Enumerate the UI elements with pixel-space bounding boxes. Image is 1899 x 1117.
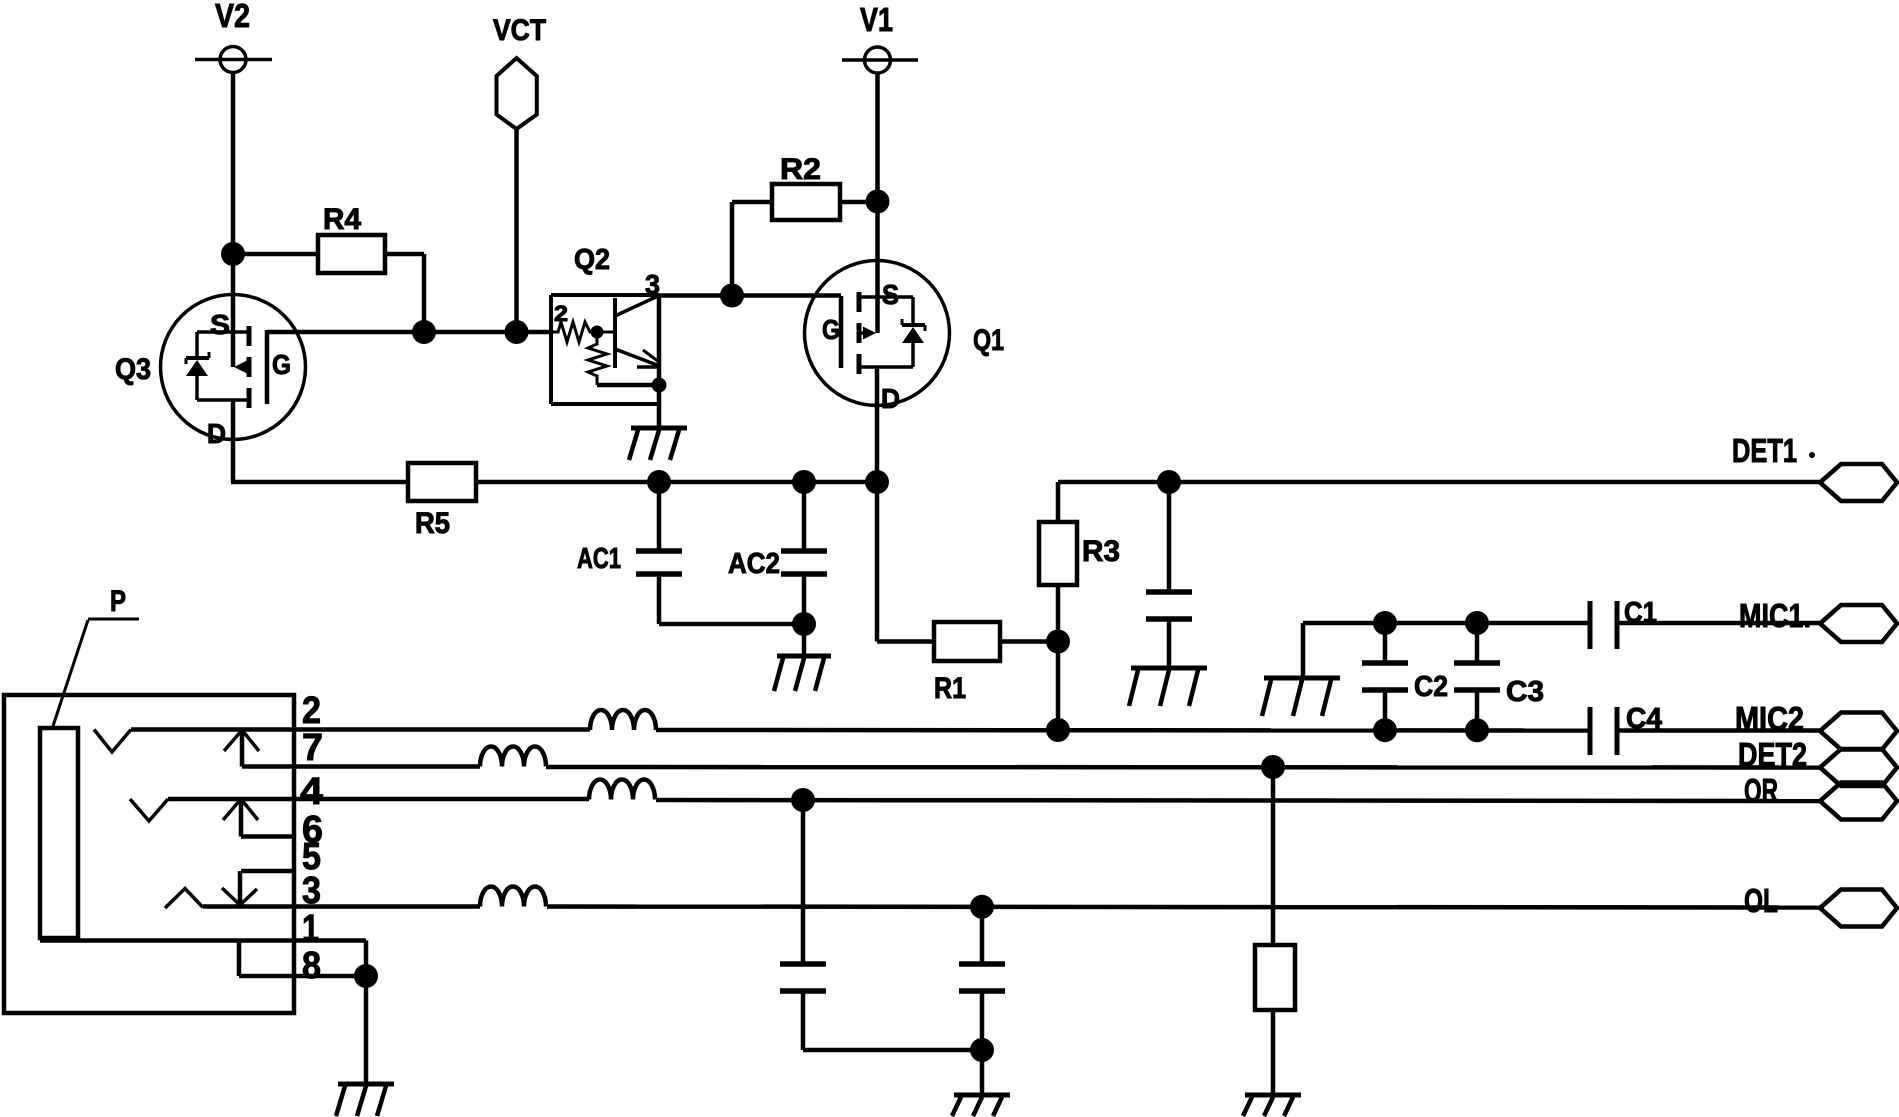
svg-text:Q2: Q2 bbox=[574, 244, 610, 276]
pin number 8 bbox=[302, 945, 321, 987]
wire DET2 node down to resistor bbox=[1271, 767, 1276, 945]
svg-text:8: 8 bbox=[302, 945, 321, 987]
node C2 bottom junction bbox=[1373, 718, 1397, 742]
wire AC1 bottom to AC2 bottom bbox=[659, 622, 804, 627]
label Q3 bbox=[115, 353, 151, 386]
net flag MIC2 bbox=[1735, 700, 1897, 750]
pin number 4 bbox=[300, 771, 323, 813]
net flag MIC1 bbox=[1739, 597, 1897, 642]
svg-text:AC2: AC2 bbox=[728, 548, 780, 580]
wire pin2 / MIC2 line bbox=[131, 730, 1822, 731]
svg-text:OL: OL bbox=[1744, 882, 1778, 919]
capacitor C1 bbox=[1590, 597, 1657, 649]
pin number 1 bbox=[302, 908, 319, 950]
pin 6 switch arrow bbox=[223, 799, 258, 837]
svg-text:DET2: DET2 bbox=[1738, 736, 1807, 773]
node DET2/resistor junction bbox=[1261, 755, 1285, 779]
wire pin1 bbox=[40, 941, 366, 977]
node R1/R3 junction bbox=[1046, 630, 1070, 654]
net flag OL bbox=[1744, 882, 1897, 927]
svg-text:R4: R4 bbox=[323, 203, 361, 236]
capacitor AC1 bbox=[577, 482, 682, 624]
svg-text:DET1: DET1 bbox=[1732, 432, 1797, 469]
svg-text:AC1: AC1 bbox=[577, 543, 621, 575]
transistor Q1 (P-MOSFET) bbox=[805, 261, 950, 415]
node AC2 bottom junction bbox=[792, 612, 816, 636]
svg-text:S: S bbox=[882, 279, 899, 310]
wire R5 to AC1/AC2/Q1 drain bbox=[476, 480, 877, 485]
wire OR cap bottom to OL cap bottom bbox=[803, 1048, 982, 1053]
node C3 top junction bbox=[1465, 611, 1489, 635]
node OL/cap junction bbox=[970, 895, 994, 919]
resistor (DET2 pull-down) bbox=[1255, 945, 1295, 1010]
pin 4 contact mark bbox=[130, 799, 168, 821]
node V1/R2 junction bbox=[866, 190, 890, 214]
pin number 3 bbox=[302, 870, 321, 912]
wire pin4 / OR line bbox=[168, 799, 1821, 801]
pin 5 switch arrow bbox=[222, 871, 257, 905]
wire R2 left leg bbox=[732, 202, 772, 296]
svg-text:V1: V1 bbox=[860, 1, 893, 38]
inductor (DET2 line) bbox=[480, 747, 546, 767]
ground (output filter) bbox=[952, 1095, 1010, 1116]
ground (Q2 emitter) bbox=[629, 428, 687, 460]
svg-text:G: G bbox=[272, 349, 291, 380]
node R4/gate net junction bbox=[412, 320, 436, 344]
svg-text:G: G bbox=[822, 314, 840, 345]
wire AC2 bottom to ground bbox=[802, 624, 807, 656]
node V2/R4 junction bbox=[221, 242, 245, 266]
svg-text:D: D bbox=[207, 418, 226, 449]
wire R1 to R3 node bbox=[1000, 639, 1058, 644]
pin number 6 bbox=[302, 809, 323, 851]
wire pin8 bbox=[239, 941, 366, 977]
net flag DET2 bbox=[1738, 736, 1897, 786]
transistor Q3 (P-MOSFET) bbox=[161, 295, 306, 450]
wire C1 to MIC1 flag bbox=[1617, 621, 1820, 626]
wire Q1 drain down bbox=[875, 367, 880, 642]
svg-text:1: 1 bbox=[302, 908, 319, 950]
label Q1 bbox=[973, 324, 1004, 357]
pin number 2 bbox=[302, 690, 321, 732]
connector P (jack) outline bbox=[4, 695, 294, 1013]
wire R4 to gate net bbox=[385, 254, 424, 332]
capacitor (OR filter) bbox=[780, 800, 826, 1050]
resistor R1 bbox=[934, 622, 1000, 705]
node OR/cap junction bbox=[791, 788, 815, 812]
resistor R4 bbox=[318, 203, 385, 273]
svg-text:Q3: Q3 bbox=[115, 353, 151, 386]
svg-text:R3: R3 bbox=[1082, 535, 1120, 568]
svg-text:MIC1.: MIC1. bbox=[1739, 597, 1811, 634]
capacitor C4 bbox=[1590, 703, 1662, 755]
wire pin6 stub bbox=[241, 834, 294, 839]
wire Q1 drain to R1 bbox=[877, 639, 934, 644]
svg-text:S: S bbox=[210, 309, 230, 340]
opto-isolator Q2 bbox=[551, 269, 667, 428]
label P with pointer bbox=[53, 585, 139, 726]
pin number 7 bbox=[302, 727, 323, 769]
svg-text:Q1: Q1 bbox=[973, 324, 1004, 357]
wire V2 to Q3 source bbox=[231, 73, 236, 368]
net flag DET1 bbox=[1732, 432, 1897, 501]
wire Q3 gate to Q2 bbox=[267, 330, 551, 335]
label Q2 bbox=[574, 244, 610, 276]
wire V2 node to R4 bbox=[233, 252, 318, 257]
ground (DET2 resistor) bbox=[1243, 1095, 1301, 1116]
power port V2 bbox=[195, 0, 272, 73]
wire R2 right leg bbox=[840, 200, 878, 205]
net flag OR bbox=[1744, 772, 1897, 820]
capacitor C2 bbox=[1362, 623, 1448, 730]
svg-text:R5: R5 bbox=[415, 507, 450, 540]
resistor R3 bbox=[1039, 522, 1120, 585]
svg-text:7: 7 bbox=[302, 727, 323, 769]
node caps/ground junction bbox=[970, 1038, 994, 1062]
node R3/MIC2 junction bbox=[1046, 718, 1070, 742]
node Q1 drain / mid rail junction bbox=[865, 470, 889, 494]
inductor (MIC2 line) bbox=[590, 710, 656, 730]
svg-text:R1: R1 bbox=[934, 672, 966, 705]
wire MIC1 net bbox=[1303, 623, 1590, 678]
pin 3 contact mark bbox=[165, 889, 203, 909]
svg-text:3: 3 bbox=[645, 269, 660, 300]
wire pin7 / DET2 line bbox=[242, 767, 1821, 768]
ground (connector P) bbox=[336, 1084, 394, 1116]
node DET1/cap junction bbox=[1157, 470, 1181, 494]
power port V1 bbox=[842, 1, 918, 73]
svg-text:VCT: VCT bbox=[493, 14, 546, 47]
capacitor C3 bbox=[1454, 623, 1544, 730]
node R2/gate junction bbox=[720, 284, 744, 308]
ground (MIC1 net) bbox=[1262, 678, 1340, 716]
node AC1 top junction bbox=[647, 470, 671, 494]
svg-text:MIC2: MIC2 bbox=[1735, 700, 1804, 737]
svg-text:C4: C4 bbox=[1626, 703, 1662, 735]
svg-text:D: D bbox=[881, 383, 900, 414]
wire Q3 drain down to R5 bbox=[231, 400, 408, 482]
wire pin5 stub bbox=[241, 869, 294, 874]
node AC2 top junction bbox=[792, 470, 816, 494]
svg-text:V2: V2 bbox=[215, 0, 250, 34]
inductor (OL line) bbox=[480, 887, 546, 907]
connector P sleeve bbox=[40, 728, 78, 938]
wire V1 to Q1 source bbox=[875, 73, 880, 333]
svg-text:4: 4 bbox=[300, 771, 323, 813]
wire VCT to gate net bbox=[514, 129, 519, 332]
capacitor AC2 bbox=[728, 482, 827, 624]
node C3 bottom junction bbox=[1465, 718, 1489, 742]
wire caps node to ground bbox=[980, 1050, 985, 1095]
wire Q2 pin3 to Q1 gate bbox=[659, 293, 841, 298]
wire pin8 node to ground bbox=[364, 976, 369, 1084]
svg-text:P: P bbox=[110, 585, 126, 618]
pin 7 switch arrow bbox=[224, 730, 259, 767]
wire R3 bottom to MIC2 line bbox=[1056, 585, 1061, 730]
pin 2 contact mark bbox=[94, 730, 131, 753]
svg-text:R2: R2 bbox=[780, 153, 821, 186]
wire pin3 / OL line bbox=[203, 907, 1824, 908]
wire DET1 bbox=[1058, 480, 1820, 485]
capacitor (DET1 filter) bbox=[1146, 482, 1192, 668]
svg-text:2: 2 bbox=[554, 301, 568, 326]
node VCT junction bbox=[505, 320, 529, 344]
svg-text:OR: OR bbox=[1744, 772, 1778, 809]
net flag VCT bbox=[493, 14, 546, 129]
resistor R2 bbox=[772, 153, 840, 220]
svg-text:C2: C2 bbox=[1414, 671, 1448, 703]
node C2 top junction bbox=[1373, 611, 1397, 635]
ground (DET1 filter cap) bbox=[1129, 668, 1207, 706]
pin number 5 bbox=[302, 836, 321, 878]
inductor (OR line) bbox=[589, 780, 655, 800]
svg-text:C3: C3 bbox=[1506, 676, 1544, 708]
svg-text:2: 2 bbox=[302, 690, 321, 732]
resistor R5 bbox=[408, 463, 476, 540]
node pin1/pin8 junction bbox=[354, 964, 378, 988]
ground (AC2) bbox=[774, 656, 831, 691]
wire resistor to ground bbox=[1271, 1010, 1276, 1095]
capacitor (OL filter) bbox=[959, 907, 1005, 1050]
wire R3 top to DET1 line bbox=[1056, 482, 1061, 522]
